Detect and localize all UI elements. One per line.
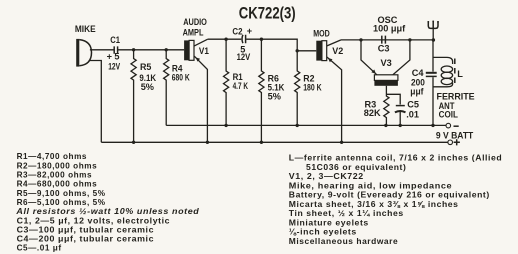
svg-text:V1, 2, 3—CK722: V1, 2, 3—CK722 [289,172,364,181]
svg-text:V2: V2 [332,46,343,56]
svg-text:+: + [107,52,112,62]
svg-text:Micarta sheet, 3/16 x 3⅜ x 1⅝: Micarta sheet, 3/16 x 3⅜ x 1⅝ inches [289,200,459,209]
svg-text:All resistors ½-watt 10% unles: All resistors ½-watt 10% unless noted [15,207,200,216]
svg-text:100 μμf: 100 μμf [373,23,406,33]
svg-text:680 K: 680 K [172,72,190,82]
svg-text:R5: R5 [140,62,151,72]
svg-text:μμf: μμf [410,86,423,96]
svg-text:C3—100 μμf, tubular ceramic: C3—100 μμf, tubular ceramic [17,225,155,234]
svg-text:L—ferrite antenna coil, 7/16 x: L—ferrite antenna coil, 7/16 x 2 inches … [289,154,503,163]
svg-text:82K: 82K [364,108,381,118]
svg-text:Battery, 9-volt (Eveready 216: Battery, 9-volt (Eveready 216 or equival… [289,191,490,200]
svg-text:COIL: COIL [439,109,459,120]
svg-text:5%: 5% [268,92,281,102]
svg-text:CK722(3): CK722(3) [239,5,296,23]
svg-text:R1—4,700 ohms: R1—4,700 ohms [17,152,87,161]
svg-text:Tin sheet, ½ x 1¼ inches: Tin sheet, ½ x 1¼ inches [289,209,404,218]
svg-text:5: 5 [114,52,119,62]
svg-text:180 K: 180 K [303,82,322,92]
svg-text:.01: .01 [406,109,419,119]
svg-text:Mike, hearing aid, low impedan: Mike, hearing aid, low impedance [289,181,452,190]
svg-text:L: L [457,69,463,79]
svg-text:C3: C3 [378,43,390,53]
svg-text:V1: V1 [199,45,209,56]
svg-text:5%: 5% [141,82,154,92]
svg-text:Miscellaneous hardware: Miscellaneous hardware [289,237,398,246]
svg-text:C5—.01 μf: C5—.01 μf [17,244,62,253]
svg-text:9 V BATT: 9 V BATT [436,130,474,140]
svg-text:C4—200 μμf, tubular ceramic: C4—200 μμf, tubular ceramic [17,235,155,244]
svg-text:C1: C1 [110,34,120,45]
svg-text:12V: 12V [108,61,120,71]
svg-text:C1, 2—5 μf, 12 volts, electrol: C1, 2—5 μf, 12 volts, electrolytic [17,216,171,225]
svg-text:R5—9,100 ohms, 5%: R5—9,100 ohms, 5% [17,189,106,198]
svg-text:R4—680,000 ohms: R4—680,000 ohms [17,180,98,189]
svg-text:R3—82,000 ohms: R3—82,000 ohms [17,171,93,180]
svg-text:C2: C2 [232,26,242,37]
svg-text:+: + [247,26,252,36]
svg-text:C5: C5 [407,100,419,110]
svg-text:V3: V3 [381,58,392,68]
svg-text:MIKE: MIKE [75,23,96,34]
svg-text:MOD: MOD [313,29,330,39]
svg-text:Miniature eyelets: Miniature eyelets [289,218,369,227]
svg-text:51C036 or equivalent): 51C036 or equivalent) [306,163,406,172]
svg-text:4.7 K: 4.7 K [233,81,249,91]
svg-text:12V: 12V [237,51,251,62]
svg-text:R6—5,100 ohms, 5%: R6—5,100 ohms, 5% [17,198,106,207]
svg-text:AMPL: AMPL [183,27,204,38]
svg-text:⅛-inch eyelets: ⅛-inch eyelets [289,228,357,237]
svg-text:R2—180,000 ohms: R2—180,000 ohms [17,161,98,170]
